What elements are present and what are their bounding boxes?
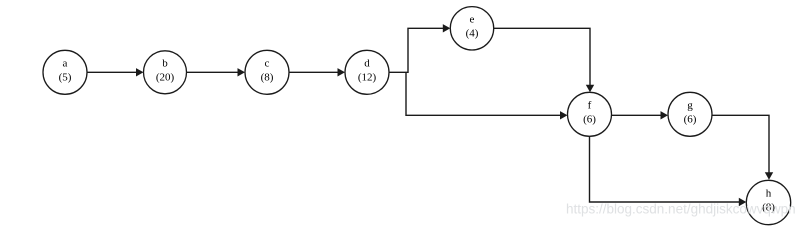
svg-text:(20): (20) <box>156 71 175 83</box>
svg-text:(12): (12) <box>358 71 377 83</box>
svg-text:a: a <box>63 58 68 70</box>
svg-text:f: f <box>588 100 592 112</box>
node a (5) <box>43 50 87 94</box>
svg-text:(6): (6) <box>583 113 596 125</box>
node g (6) <box>668 92 712 136</box>
svg-text:https://blog.csdn.net/ghdjiskc: https://blog.csdn.net/ghdjiskcowvqwpn <box>566 202 796 217</box>
svg-text:(5): (5) <box>59 71 72 83</box>
node d (12) <box>345 50 389 94</box>
wire c->d <box>289 68 345 76</box>
wire d->f <box>406 73 568 120</box>
svg-text:(8): (8) <box>261 71 274 83</box>
wire d->e <box>389 24 450 72</box>
svg-text:d: d <box>364 58 370 70</box>
wire f->g <box>612 111 669 119</box>
wire b->c <box>187 68 246 76</box>
node f (6) <box>568 92 612 136</box>
node e (4) <box>450 7 493 50</box>
wire e->f <box>494 28 595 92</box>
node h (8) <box>746 180 790 224</box>
wire g->h <box>712 115 773 179</box>
svg-text:c: c <box>265 58 270 70</box>
node b (20) <box>144 51 187 94</box>
svg-text:h: h <box>766 188 772 200</box>
svg-text:b: b <box>162 58 168 70</box>
svg-text:(6): (6) <box>684 113 697 125</box>
svg-text:(4): (4) <box>466 27 479 39</box>
svg-text:e: e <box>470 14 475 26</box>
svg-text:g: g <box>687 100 693 112</box>
wire f->h <box>590 136 747 206</box>
node c (8) <box>245 50 289 94</box>
wire a->b <box>87 68 144 76</box>
